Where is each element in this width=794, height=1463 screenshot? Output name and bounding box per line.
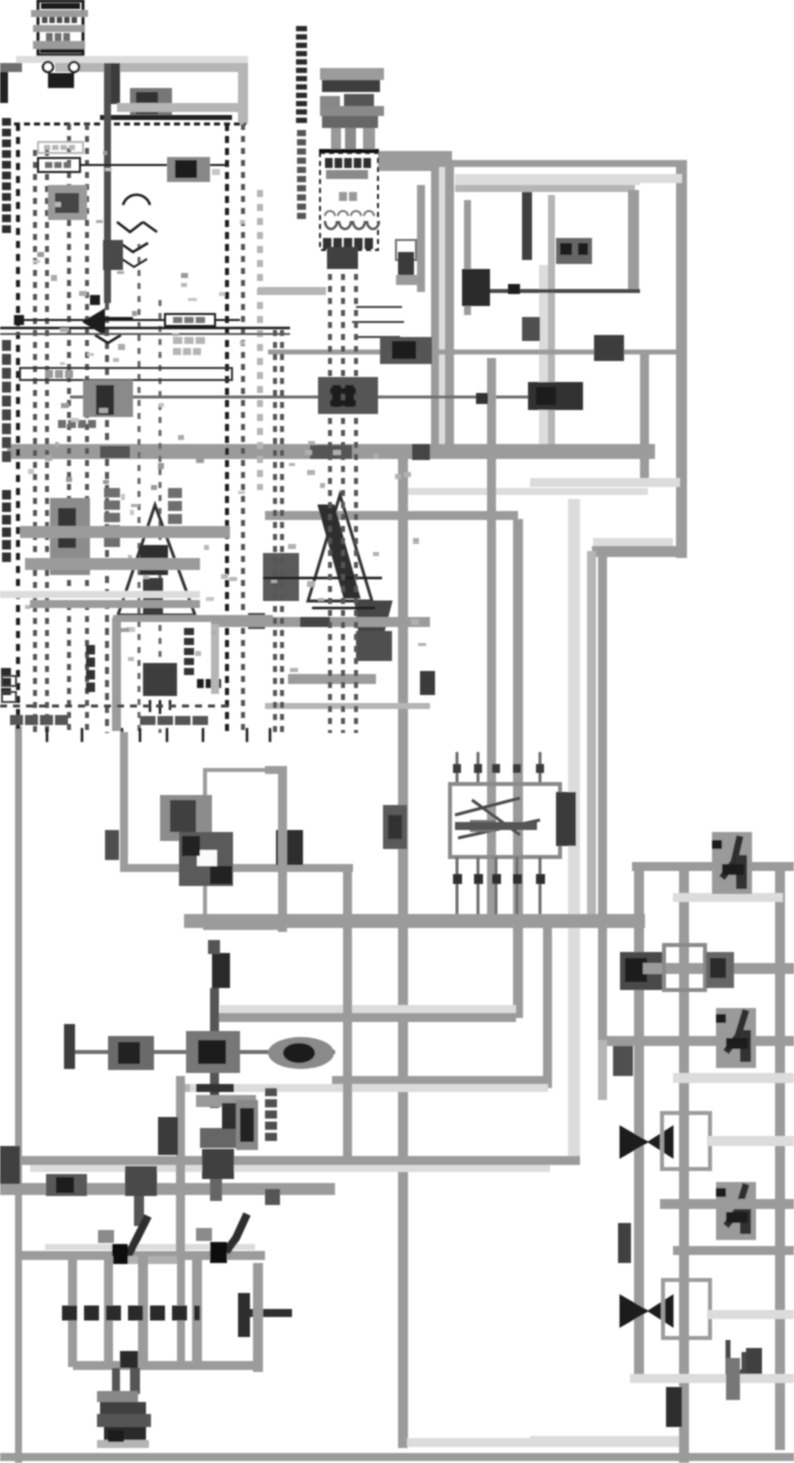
mark x624 y1062 xyxy=(613,1046,633,1076)
zener V marks 2 xyxy=(120,243,148,252)
connector CONN-A dashed box xyxy=(320,153,378,250)
connector J1 outline xyxy=(38,1,83,55)
transistor Q10 box xyxy=(205,770,285,928)
component blob mid x330 xyxy=(318,377,378,414)
right box vertical x637 xyxy=(634,865,644,1383)
transistor Q30 marks xyxy=(128,1216,148,1256)
dashed vertical x243 xyxy=(241,124,245,733)
wire light band y59 xyxy=(16,56,248,63)
vertical bus x116 xyxy=(112,618,121,731)
connector pins bottom blobs xyxy=(327,247,358,269)
left margin CTN xyxy=(1,668,11,675)
IC U3 body xyxy=(450,784,560,857)
connector J1 inner marks xyxy=(46,33,53,41)
label column x184 xyxy=(184,628,194,635)
junction dot x478 xyxy=(476,393,488,404)
op-amp U2 drip blob xyxy=(355,601,392,660)
wire gray band y67 left xyxy=(0,63,22,72)
wire vertical x550 xyxy=(548,195,555,455)
black cluster x530 y395 xyxy=(528,382,583,410)
wire horizontal y1162 full xyxy=(0,1156,580,1165)
diode D10 bowtie xyxy=(620,1126,648,1158)
wire band y970 right xyxy=(643,963,794,974)
component marks x524 y325 xyxy=(522,317,540,341)
component Q blob y680 xyxy=(143,663,177,696)
dashed vertical x69 xyxy=(67,124,71,733)
wire vertical x448 xyxy=(445,167,454,457)
dashed vertical x356 mid xyxy=(354,250,358,733)
connector J1 gray band 1 xyxy=(31,10,88,17)
wire light shadow band top xyxy=(455,174,682,183)
component T cluster left xyxy=(50,498,90,575)
wire horizontal y516 xyxy=(265,511,518,520)
transformer T2 core bar xyxy=(62,1306,200,1321)
wire band y564 xyxy=(25,558,200,570)
connector J1 gray band 2 xyxy=(33,25,85,32)
wire light band y484 xyxy=(530,478,680,487)
component blob x597 y345 xyxy=(594,335,624,361)
component small x113 y845 xyxy=(105,830,119,860)
wire left main vertical bus xyxy=(15,726,22,1463)
label CTN xyxy=(197,679,204,688)
transformer T3 gray rows xyxy=(320,106,384,116)
transformer T3 block top band xyxy=(320,68,384,80)
dashed vertical pair x275 xyxy=(273,330,277,733)
component blobs bottom y958 xyxy=(620,952,665,990)
wire vertical x602 xyxy=(598,556,607,1044)
component cluster CE xyxy=(48,185,87,220)
wire vertical x592 xyxy=(587,551,596,921)
component bar x245 y1315 xyxy=(238,1293,250,1337)
right box top horizontal y868 xyxy=(632,862,794,871)
wire horizontal y1367 xyxy=(73,1361,263,1370)
wire vertical light x440 xyxy=(439,167,445,457)
wire light y900 right xyxy=(673,893,783,902)
wire vertical x468 xyxy=(464,200,471,315)
diode D11 bowtie xyxy=(620,1295,648,1327)
wire horizontal y1042 right xyxy=(600,1036,794,1046)
wire band y618 xyxy=(113,615,273,622)
wire top-right frame horizontal xyxy=(448,160,687,167)
op-amp U2 triangle xyxy=(308,495,372,601)
wire light y1080 right xyxy=(673,1073,794,1083)
wire light band y1168 xyxy=(30,1165,550,1172)
transformer T1 core blob xyxy=(48,73,74,88)
transistor Q41 claw xyxy=(716,1182,756,1240)
wire vertical x124 xyxy=(120,732,128,872)
capacitor blob on bus x403 xyxy=(383,805,407,849)
wire horizontal y1082 xyxy=(332,1076,548,1084)
vertical text x270 y1115 xyxy=(265,1088,277,1096)
wire horizontal y772 xyxy=(265,766,287,774)
wire light y1142 right xyxy=(707,1136,794,1146)
wire horizontal light y1443 right xyxy=(530,1436,683,1442)
transformer T2 vertical x144 xyxy=(138,1256,148,1367)
dashed vertical x35 xyxy=(33,150,37,733)
wire horizontal y1207 right xyxy=(660,1199,794,1209)
dashed vertical x160 xyxy=(159,300,162,733)
resistor marks x560 xyxy=(556,238,592,264)
bottom dash row y705 left xyxy=(0,705,230,708)
wire horizontal y868 left small xyxy=(122,864,353,872)
diode arc D1 xyxy=(123,195,150,205)
wire band y491 light xyxy=(408,488,648,495)
wire black top of CONN-A xyxy=(319,149,379,153)
left margin vertical text upper xyxy=(2,118,11,126)
op-amp AG symbol xyxy=(84,310,104,334)
bar dark x112 xyxy=(111,63,120,104)
small box x684 y968 xyxy=(664,945,705,990)
wire vertical x607 stub xyxy=(598,1040,607,1100)
component cluster x275 y575 xyxy=(263,553,299,601)
junction dot y320 xyxy=(14,315,24,325)
connector CONN-A bottom text row xyxy=(323,238,331,249)
funnel winding cluster xyxy=(97,1391,138,1402)
component dark blob x110 xyxy=(103,240,123,270)
component marks x250 y620 xyxy=(248,613,265,629)
component cluster under connector xyxy=(130,88,172,118)
component blob x370 y645 xyxy=(356,631,392,661)
wire vertical x645 xyxy=(640,352,649,480)
dashed vertical x343 mid xyxy=(341,250,345,733)
wire dark y1313 right of core xyxy=(246,1309,292,1317)
op-amp U1 triangle xyxy=(118,505,195,615)
wire vertical x432 xyxy=(431,167,439,457)
wire horizontal y293 inner xyxy=(470,289,640,293)
right box vertical x781 outer xyxy=(775,865,785,1450)
dashed vertical x227 xyxy=(225,124,229,733)
connector CONN-A bumps row xyxy=(325,211,374,216)
resistor box RIK xyxy=(38,158,80,172)
transistor Q10 cluster xyxy=(160,795,212,841)
diode D10 box xyxy=(662,1113,710,1169)
component blob x60 y1185 xyxy=(46,1174,87,1196)
right box vertical x684 xyxy=(679,865,689,1463)
wire light y1316 right xyxy=(707,1310,794,1319)
op-amp U1 output bar xyxy=(143,578,163,618)
transformer T2 vertical x197 xyxy=(192,1256,202,1367)
label marks y425 left xyxy=(58,420,66,428)
wire vertical x489 xyxy=(487,358,496,918)
bar left black xyxy=(0,72,8,103)
mark x272 y1196 xyxy=(265,1189,280,1205)
junction cluster x213 y1052 xyxy=(186,1031,240,1073)
connector J1 gray band 3 xyxy=(33,41,85,49)
dashed box top border y124 xyxy=(14,123,246,126)
junction dot x511 y289 xyxy=(508,284,520,294)
wire band y680 xyxy=(288,674,376,684)
IC U3 inner marks xyxy=(455,798,540,838)
wire light y594 xyxy=(0,591,200,598)
fuse boxes left margin xyxy=(2,676,16,686)
left box vertical x181 xyxy=(176,1076,185,1256)
transistor Q31 marks xyxy=(226,1214,247,1252)
IC U3 pins top xyxy=(456,752,459,784)
transformer T3 mid blob xyxy=(344,94,374,116)
label UE33 vertical xyxy=(168,488,182,498)
zener V marks 3 xyxy=(122,259,147,267)
component X cluster xyxy=(167,157,210,182)
wire vertical x282 xyxy=(278,766,287,932)
label 41MHR7 vertical xyxy=(86,645,95,655)
resistor box MCCL xyxy=(38,142,83,153)
capacitor C21 tee xyxy=(196,1084,234,1092)
capacitor marks mid xyxy=(90,295,100,305)
wire second frame horizontal xyxy=(455,177,640,185)
IC U3 pins bottom xyxy=(456,857,459,914)
wire bottom border xyxy=(0,1453,794,1461)
wire band y604 xyxy=(30,600,200,608)
component bar x523 xyxy=(522,192,532,260)
component R blob x130 xyxy=(108,1036,154,1070)
marks x734 y1380 xyxy=(726,1358,740,1400)
transformer T3 pins xyxy=(331,128,341,151)
component blob x382 y350 xyxy=(380,337,432,364)
dashed vertical x139 xyxy=(138,244,141,733)
wire vertical x403 long bus xyxy=(398,452,408,1448)
wire vertical light x574 xyxy=(568,499,580,1163)
zener V marks 1 xyxy=(117,222,157,232)
wire vertical x347 xyxy=(343,865,352,1164)
mark x625 y1243 xyxy=(618,1223,631,1263)
connector CONN-A gray blob row xyxy=(326,170,368,179)
dashed vertical x330 mid xyxy=(328,250,332,733)
wire band y918 IC to right xyxy=(184,914,645,928)
connector J1 label bar xyxy=(41,3,80,9)
wire inner frame light band xyxy=(593,538,673,546)
wire horizontal y1052 lower-left xyxy=(65,1050,335,1054)
capacitor C20 plate xyxy=(64,1024,75,1069)
wire vertical x548 xyxy=(543,920,552,1088)
wire horizontal y1257 xyxy=(15,1251,265,1260)
vertical dark bus x213 xyxy=(212,953,230,988)
left margin vertical text mid xyxy=(2,340,11,351)
wire horizontal y1018 xyxy=(213,1013,516,1022)
wire corner light x407 bottom xyxy=(407,1438,683,1447)
component blob x215 y1163 xyxy=(202,1149,234,1179)
dashed vertical x47 xyxy=(45,150,49,733)
vertical label column SPECIFICATION xyxy=(296,26,307,31)
wire band y707 xyxy=(265,703,430,709)
wire inner frame corner horizontal y552 xyxy=(592,546,687,557)
transformer T2 vertical x181 xyxy=(177,1256,185,1367)
left margin vertical text low xyxy=(2,490,11,500)
transformer T2 vertical x109 xyxy=(104,1256,113,1367)
connector CONN-A label xyxy=(325,158,333,168)
component small box x399 xyxy=(396,240,416,260)
resistor R 1K xyxy=(165,314,215,326)
marks inside left box xyxy=(196,1095,256,1107)
funnel neck bars xyxy=(112,1368,120,1394)
component blob x290 y848 xyxy=(276,830,303,865)
scatter text noise left region xyxy=(96,220,103,223)
wire pin stubs right of CONN-A xyxy=(352,307,404,337)
wire light y1381 right xyxy=(630,1374,794,1383)
wire black y118 xyxy=(100,115,232,120)
component blob x140 y1180 xyxy=(125,1166,157,1196)
wire vertical x420 short xyxy=(417,185,425,292)
wire vertical x518 down to IC xyxy=(513,519,523,1018)
transformer T1 circle left xyxy=(43,62,53,72)
connector CONN-A Tel label xyxy=(339,192,347,201)
wire band y624 xyxy=(211,617,430,627)
thin box y368 xyxy=(20,368,232,380)
gray dash column x260 xyxy=(257,190,263,490)
component blob x168 y1136 xyxy=(158,1117,178,1155)
vertical x107 solid dark xyxy=(104,63,111,303)
bottom marks row y720 xyxy=(10,715,23,725)
transformer T1 circle right xyxy=(69,62,79,72)
wire band y532 xyxy=(20,526,230,538)
blob left edge y1165 xyxy=(0,1146,20,1184)
transformer T2 vertical x72 xyxy=(68,1256,77,1367)
wire black y578 xyxy=(263,577,382,580)
tick marks row y735 xyxy=(46,728,49,742)
right frame x258 xyxy=(253,1263,263,1372)
wire vertical x632 inner box xyxy=(628,190,639,293)
component blob x465 on y293 xyxy=(462,269,490,306)
connector J1 bottom bar xyxy=(40,49,82,53)
component marks right of box xyxy=(706,952,734,988)
wire box top y67 xyxy=(55,63,248,72)
transistor Q40 claw xyxy=(716,1008,756,1068)
component dot x428 y683 xyxy=(420,671,435,695)
wire top frame wide band from connector xyxy=(378,151,452,171)
wire horizontal y1253 right xyxy=(673,1246,794,1255)
component cluster C14 xyxy=(83,380,133,417)
dashed vertical x18 xyxy=(16,124,20,733)
dashed vertical x87 xyxy=(85,124,89,733)
wire wide band y452 xyxy=(7,444,655,459)
wire y165 horizontal xyxy=(80,164,227,166)
transformer T3 dark row xyxy=(322,80,380,92)
connector J1 pin marks row xyxy=(42,17,47,23)
wire light band y1008 xyxy=(220,1005,516,1013)
component blob x399 xyxy=(398,252,414,276)
wire box mid y107 xyxy=(117,103,238,112)
wire light band y1248 xyxy=(45,1244,255,1250)
transistor Q20 claw xyxy=(712,832,752,894)
connector CONN-A circles row xyxy=(325,221,337,229)
label CTR vertical xyxy=(104,488,120,497)
wire band y1190 xyxy=(0,1183,335,1195)
component J hook xyxy=(728,1340,744,1372)
wire light band y1088 xyxy=(190,1084,548,1092)
component bar x675 y1405 xyxy=(666,1387,682,1427)
wire right outer frame vertical xyxy=(676,160,687,558)
wire to resistor 1K xyxy=(24,319,165,321)
diode D11 box xyxy=(663,1280,710,1338)
wire double horizontal y330 xyxy=(0,327,290,330)
wire horizontal y352 xyxy=(268,350,676,355)
wire black y608 xyxy=(312,607,375,610)
diode eye x300 xyxy=(268,1037,334,1069)
wire horizontal y397 xyxy=(70,396,530,399)
wire box right vertical x243 xyxy=(238,63,248,124)
label ATX SVS xyxy=(173,337,182,344)
